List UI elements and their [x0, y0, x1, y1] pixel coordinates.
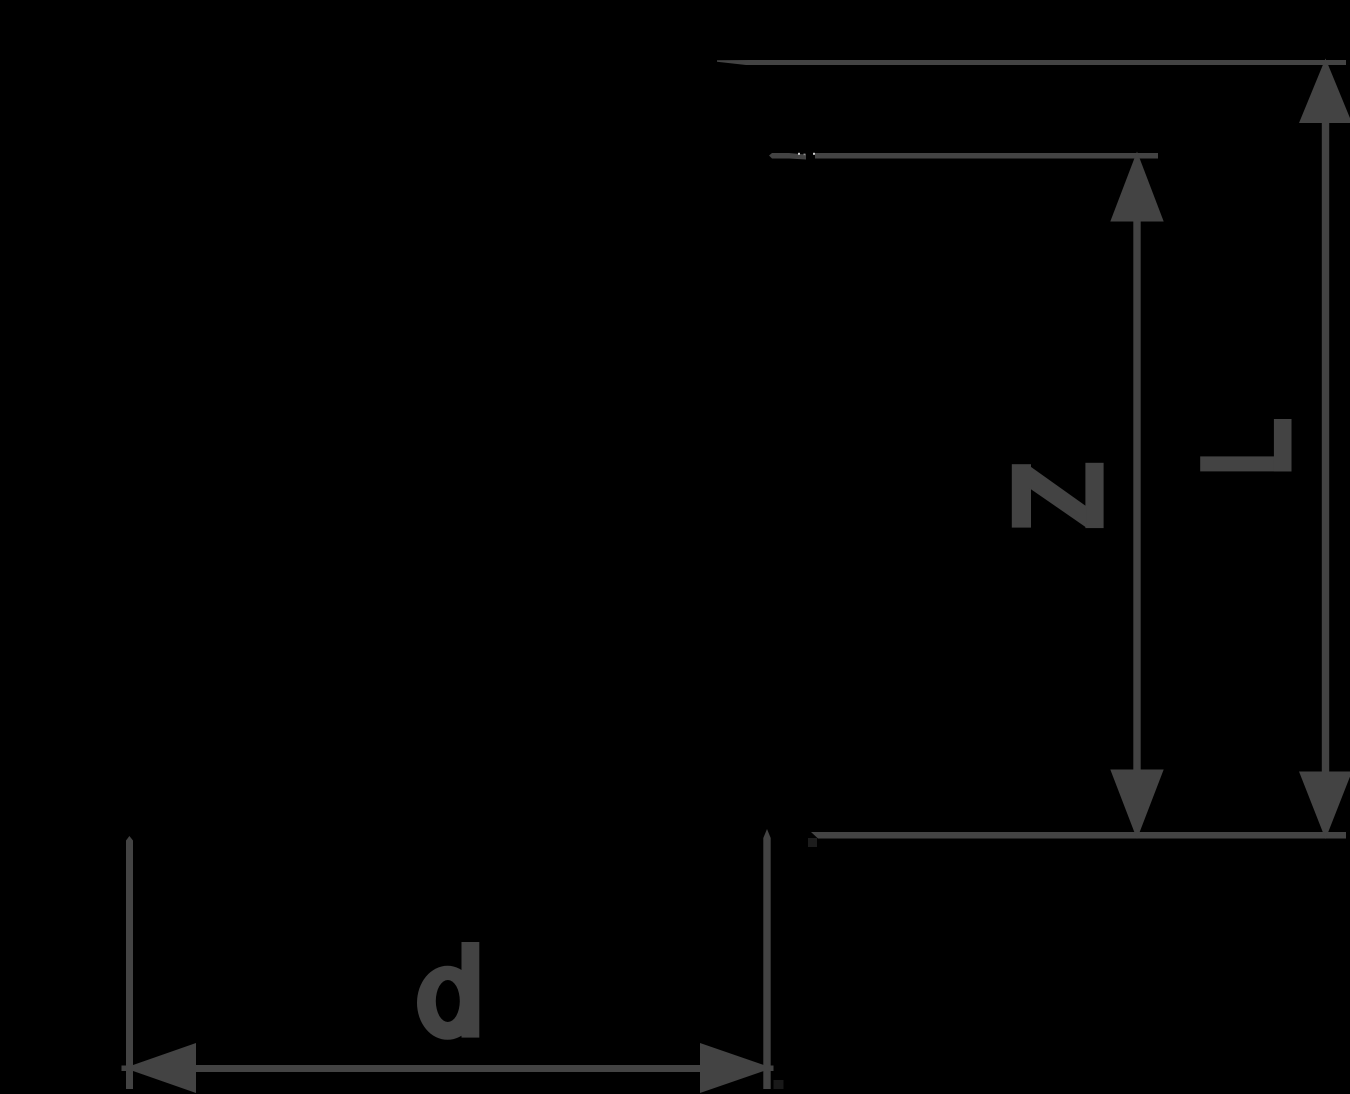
wire: upper reference line (Z datum) segment 1	[769, 153, 789, 159]
label Z (rotated 90 CCW): left bar	[1012, 464, 1031, 527]
node: white speck 1 on Z datum line	[798, 153, 800, 155]
node: faint blob below left end of bottom reference line	[808, 838, 817, 847]
dimension L: bottom arrowhead	[1299, 772, 1350, 840]
label d: stem	[462, 942, 480, 1038]
dimension L: shaft	[1322, 120, 1329, 775]
label L (rotated 90 CCW): right bar	[1274, 419, 1292, 471]
label L (rotated 90 CCW): bottom bar	[1200, 456, 1291, 471]
dimension Z: top arrowhead	[1110, 152, 1163, 222]
dimension d: left arrowhead	[125, 1043, 197, 1093]
wire: top reference line (top of fitting, L datum)	[717, 60, 750, 65]
dimension d: left arrow tip nub	[122, 1066, 132, 1072]
label Z (rotated 90 CCW): diagonal	[1030, 466, 1087, 528]
dimension Z: shaft	[1133, 215, 1140, 775]
dimension d: right arrow tip nub	[764, 1066, 774, 1072]
wire: upper reference line (Z datum) broken segment	[789, 153, 806, 160]
dimension Z: bottom arrowhead	[1110, 770, 1163, 840]
dimension d: line	[190, 1065, 705, 1072]
label d: bowl outer	[417, 966, 478, 1040]
label d: bowl counter (hole)	[436, 980, 460, 1022]
label Z (rotated 90 CCW): right bar	[1085, 463, 1103, 528]
dimension L: top arrowhead	[1299, 59, 1350, 124]
wire: upper reference line (Z datum) main segment	[815, 153, 1158, 159]
wire: bottom reference line (d datum)	[811, 832, 1346, 839]
dimension d: right arrowhead	[700, 1043, 773, 1093]
extension line: d right	[763, 829, 770, 1089]
node: white speck 2 on Z datum line	[804, 154, 806, 156]
node: white speck 3 on Z datum line	[813, 153, 815, 155]
node: faint blob right of d right extension line	[774, 1080, 784, 1089]
extension line: d left	[126, 836, 133, 1089]
